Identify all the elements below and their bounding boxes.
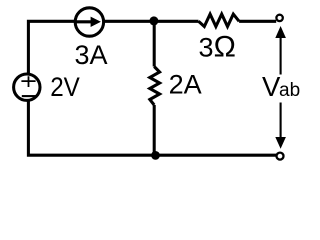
wire: middle branch top segment <box>153 20 156 67</box>
voltage source 2V: plus sign <box>21 76 35 87</box>
svg-text:2A: 2A <box>169 70 202 100</box>
wire: 3-ohm to terminal a <box>239 20 276 23</box>
Vab down arrow shaft <box>280 103 282 138</box>
voltage source 2V: minus sign <box>22 95 36 97</box>
voltage source 2V: circle <box>14 74 40 100</box>
junction dot bottom (node at middle branch / bottom wire) <box>151 151 160 160</box>
current source 3A: circle <box>75 8 103 36</box>
terminal a (open circle, top right) <box>276 15 282 21</box>
junction dot top (node at middle branch / top wire) <box>149 16 158 25</box>
resistor 3-ohm zigzag (top right) <box>199 14 240 26</box>
current source 3A: arrow shaft <box>76 20 93 23</box>
current source 3A: arrow head <box>91 17 101 27</box>
wire: outer loop (bottom wire, left branch, top wire to 3-ohm) <box>28 21 276 155</box>
svg-text:Vab: Vab <box>262 71 300 102</box>
svg-text:3Ω: 3Ω <box>199 31 236 64</box>
svg-text:2V: 2V <box>50 72 80 102</box>
Vab up arrow shaft <box>280 37 282 75</box>
terminal b (open circle, bottom right) <box>277 153 284 160</box>
resistor middle zigzag (2A branch) <box>150 67 160 106</box>
svg-text:3A: 3A <box>74 40 107 70</box>
Vab down arrow head <box>275 137 286 149</box>
Vab up arrow head <box>275 26 286 38</box>
wire: middle branch bottom segment <box>153 105 156 157</box>
